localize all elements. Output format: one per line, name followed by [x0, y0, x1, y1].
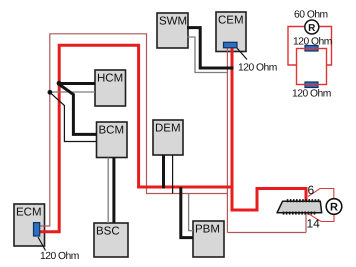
svg-text:CEM: CEM — [218, 14, 244, 26]
svg-text:BSC: BSC — [96, 225, 120, 237]
svg-text:6: 6 — [308, 183, 315, 197]
svg-text:DEM: DEM — [155, 122, 181, 134]
svg-text:ECM: ECM — [16, 206, 42, 218]
svg-text:HCM: HCM — [97, 72, 123, 84]
svg-text:120 Ohm: 120 Ohm — [292, 89, 331, 100]
svg-text:BCM: BCM — [99, 124, 125, 136]
svg-text:120 Ohm: 120 Ohm — [40, 251, 79, 262]
svg-text:R: R — [330, 202, 338, 214]
svg-text:120 Ohm: 120 Ohm — [293, 37, 332, 48]
svg-text:120 Ohm: 120 Ohm — [238, 63, 277, 74]
svg-text:PBM: PBM — [195, 223, 220, 235]
svg-text:60 Ohm: 60 Ohm — [294, 10, 328, 21]
svg-text:R: R — [308, 23, 316, 34]
svg-text:14: 14 — [307, 216, 321, 230]
svg-text:SWM: SWM — [159, 15, 187, 27]
